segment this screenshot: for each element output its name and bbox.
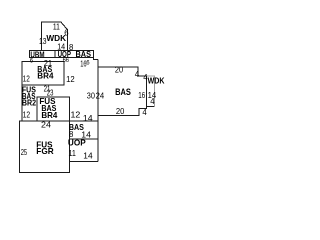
band divider bbox=[54, 50, 56, 57]
svg-text:12: 12 bbox=[23, 74, 30, 83]
svg-text:FGR: FGR bbox=[36, 146, 53, 156]
svg-text:6: 6 bbox=[64, 29, 68, 38]
box3 FUS FGR bbox=[20, 121, 70, 172]
svg-text:24: 24 bbox=[96, 91, 105, 100]
svg-text:BAS: BAS bbox=[115, 87, 131, 97]
svg-text:11: 11 bbox=[53, 22, 60, 31]
svg-text:16: 16 bbox=[138, 91, 145, 100]
svg-text:BAS: BAS bbox=[76, 49, 92, 59]
svg-text:BR4: BR4 bbox=[41, 110, 57, 120]
wire left edge below box1 bbox=[21, 85, 23, 121]
deck WDK right rect light edges bbox=[147, 76, 155, 107]
deck WDK top outline bbox=[42, 22, 68, 50]
svg-text:UOP: UOP bbox=[68, 138, 86, 148]
svg-text:4: 4 bbox=[135, 70, 140, 79]
svg-text:12: 12 bbox=[71, 111, 81, 120]
svg-text:WDK: WDK bbox=[148, 76, 166, 86]
svg-text:30: 30 bbox=[87, 91, 96, 100]
wire right step down bbox=[98, 107, 146, 116]
svg-text:25: 25 bbox=[21, 148, 28, 157]
svg-text:20: 20 bbox=[116, 107, 125, 116]
svg-text:13: 13 bbox=[39, 37, 47, 46]
svg-text:BR2: BR2 bbox=[22, 98, 36, 108]
wire middle vertical bbox=[68, 121, 70, 172]
box1 BAS BR4 bbox=[22, 62, 64, 85]
band UBM/UOP/BAS box bbox=[29, 50, 93, 57]
svg-text:12: 12 bbox=[23, 111, 31, 120]
svg-text:14: 14 bbox=[83, 114, 94, 123]
svg-text:14: 14 bbox=[83, 152, 93, 161]
svg-text:BR4: BR4 bbox=[37, 71, 53, 81]
svg-text:4: 4 bbox=[142, 108, 147, 117]
wire band right connector bbox=[93, 58, 98, 60]
wire main right vertical bbox=[97, 59, 99, 161]
svg-text:12: 12 bbox=[66, 75, 75, 84]
deck WDK right rect dark edges bbox=[147, 76, 155, 107]
wire right top edge bbox=[98, 67, 146, 76]
svg-text:4: 4 bbox=[150, 97, 155, 106]
wire strip top extension bbox=[69, 120, 98, 122]
box2 FUS BAS BR4 bbox=[37, 97, 69, 121]
svg-text:11: 11 bbox=[68, 149, 76, 158]
svg-text:24: 24 bbox=[41, 121, 52, 130]
wire UOP bottom bbox=[69, 160, 98, 162]
svg-text:16: 16 bbox=[80, 59, 86, 68]
svg-text:20: 20 bbox=[115, 66, 124, 75]
svg-text:66: 66 bbox=[63, 58, 70, 64]
wire BAS strip bottom bbox=[69, 138, 98, 140]
